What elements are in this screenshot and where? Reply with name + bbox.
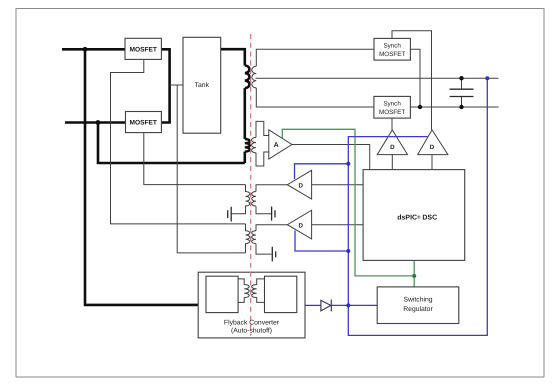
svg-text:MOSFET: MOSFET	[129, 120, 156, 127]
svg-text:Synch: Synch	[383, 100, 401, 107]
dsPIC DSC U1 box	[363, 170, 465, 261]
wire secondary bottom lead / bottom rail	[256, 88, 374, 107]
wire input line 1	[62, 48, 125, 51]
wire bottom rail right part	[410, 106, 498, 108]
driver D3 triangle	[377, 130, 407, 155]
svg-text:Synch: Synch	[383, 42, 401, 49]
wire D1 input from dsPIC	[312, 184, 364, 186]
labels driver D3 D4	[390, 144, 435, 151]
Flyback Converter outer box	[198, 272, 305, 338]
wire blue flyback to diode	[305, 304, 321, 306]
wire secondary top lead to Synch MOSFET1	[256, 49, 374, 66]
wire Tank out to transformer primary	[221, 49, 245, 65]
junction dot blue D1 tap	[346, 162, 350, 166]
diode D5	[321, 300, 331, 312]
wire blue top rail to bottom loop	[348, 78, 487, 335]
wire input line 2	[65, 121, 126, 124]
Flyback inner right box	[265, 276, 297, 312]
svg-text:Tank: Tank	[195, 82, 210, 89]
svg-text:MOSFET: MOSFET	[379, 51, 405, 58]
junction dot top rail cap	[459, 76, 463, 80]
transformer T1 primary winding	[245, 66, 250, 89]
svg-text:MOSFET: MOSFET	[379, 109, 405, 116]
wire GDT2 right top to D2 tip	[256, 225, 287, 231]
driver D2 triangle	[287, 210, 311, 239]
junction dot blue diode line	[346, 303, 350, 307]
junction dot input1	[83, 47, 88, 52]
wire D2 input from dsPIC	[312, 224, 364, 226]
wire blue riser	[348, 137, 427, 306]
wire GDT1 right bottom to cap	[256, 206, 271, 214]
flyback transformer T2 primary winding	[238, 279, 249, 303]
isolation boundary dash overlay through flyback	[250, 272, 252, 336]
wire bus from input1 junction down to flyback	[85, 49, 198, 305]
wire MOSFET1 out to MOSFET2 out	[161, 49, 169, 122]
wire blue to D1	[295, 164, 349, 179]
junction dot bottom rail cap	[459, 105, 463, 109]
wire bridge to Tank with branch	[170, 84, 183, 86]
capacitor C3 right plates	[272, 207, 275, 221]
wire MOSFET2 gate path to GDT1 top	[144, 133, 246, 185]
svg-text:D: D	[430, 144, 435, 151]
junction dot green	[412, 274, 416, 278]
wire SynchMOSFET1 right to bottom rail	[410, 49, 420, 107]
MOSFET Q2 box	[126, 112, 162, 133]
svg-text:Flyback Converter: Flyback Converter	[224, 320, 280, 327]
svg-text:D: D	[298, 222, 303, 229]
wire centre tap / top rail	[256, 77, 499, 79]
junction dot input2	[96, 120, 101, 125]
GDT1 right winding	[252, 192, 256, 207]
wire primary to CT	[244, 88, 247, 139]
svg-text:D: D	[390, 144, 395, 151]
wire green dsPIC bottom stub	[413, 259, 415, 287]
junction dot bottom rail SM1	[418, 105, 422, 109]
wire blue diode to regulator	[331, 304, 377, 306]
Switching Regulator U2 box	[377, 287, 459, 324]
wire CT to return corner	[244, 152, 247, 163]
MOSFET Q1 box	[125, 38, 161, 59]
wire green from A amp to junction	[282, 129, 414, 276]
wire GDT2 right bottom to cap	[256, 244, 272, 255]
capacitor C1 stubs	[461, 78, 463, 107]
wire blue to D2	[295, 231, 348, 252]
Synch MOSFET Q3 box	[374, 38, 410, 60]
wire A output to dsPIC	[292, 145, 370, 170]
wire GDT1 right top to D1 tip	[256, 185, 287, 192]
wire branch down to GDT2 lower lead	[177, 85, 245, 253]
svg-text:(Auto-shutoff): (Auto-shutoff)	[231, 328, 272, 335]
driver D4 triangle	[418, 130, 448, 155]
CT secondary winding	[252, 137, 256, 152]
label op-amp A	[274, 142, 279, 149]
capacitor C4 plates	[272, 247, 275, 262]
svg-text:Regulator: Regulator	[403, 306, 433, 313]
wire primary return from input2 junction	[98, 123, 245, 164]
wire MOSFET1 gate path to GDT2 top	[111, 59, 246, 224]
svg-text:MOSFET: MOSFET	[129, 46, 156, 53]
capacitor C1 plates	[450, 89, 474, 96]
GDT1 left winding	[232, 185, 250, 214]
svg-text:D: D	[298, 182, 303, 189]
wire CT secondary top to A amp	[256, 121, 269, 137]
junction dot blue D2 tap	[346, 249, 350, 253]
GDT2 right winding	[252, 231, 256, 244]
wire SynchMOSFET1 top loop to driver D4	[392, 31, 432, 130]
op-amp A triangle	[269, 130, 292, 159]
Tank box	[183, 37, 221, 133]
capacitor C2 left plates	[228, 207, 232, 222]
GDT2 left winding	[246, 224, 250, 253]
transformer T1 secondary winding	[252, 66, 256, 88]
Synch MOSFET Q4 box	[374, 96, 411, 118]
Flyback inner left box	[206, 276, 238, 312]
flyback transformer T2 secondary winding	[252, 279, 265, 303]
wire D4 base to dsPIC	[431, 155, 433, 170]
junction dot blue top rail	[485, 76, 489, 80]
isolation boundary dashed line	[250, 34, 252, 336]
wire CT secondary bottom to A amp	[256, 152, 269, 166]
labels driver D1 D2	[298, 182, 303, 229]
driver D1 triangle	[287, 170, 311, 199]
current transformer CT primary winding	[245, 139, 250, 152]
wire D3 base to dsPIC	[391, 155, 393, 170]
svg-text:Switching: Switching	[403, 296, 432, 303]
svg-text:A: A	[274, 142, 279, 149]
wire SynchMOSFET2 bottom to driver D3	[391, 118, 393, 130]
